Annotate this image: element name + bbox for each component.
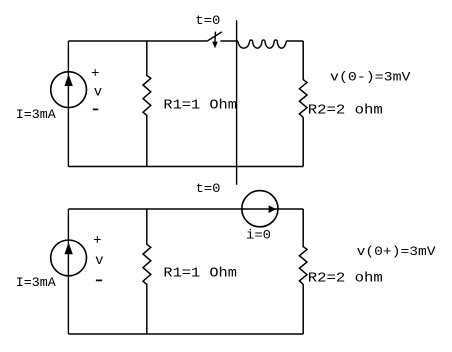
inductor L1 — [238, 40, 286, 48]
svg-text:t=0: t=0 — [195, 13, 220, 28]
current source I1 circle — [51, 72, 87, 108]
wire crossing vertical line (node between circuits) — [236, 20, 238, 185]
current source I3 circle — [51, 240, 87, 276]
wire switch to inductor — [220, 40, 238, 42]
resistor R1 (bottom circuit) — [143, 209, 151, 334]
wire left branch (bottom circuit) — [67, 209, 69, 334]
wire left branch (top circuit) — [67, 41, 69, 167]
svg-text:+: + — [91, 66, 99, 82]
current source I1 arrow — [64, 74, 72, 86]
resistor R2 (top circuit) — [299, 41, 307, 167]
svg-text:R1=1 Ohm: R1=1 Ohm — [163, 98, 237, 113]
svg-text:v(0-)=3mV: v(0-)=3mV — [330, 70, 411, 85]
wire bottom (bottom circuit) — [68, 333, 303, 335]
svg-text:v: v — [95, 253, 103, 269]
svg-text:i=0: i=0 — [246, 227, 271, 242]
svg-text:v(0+)=3mV: v(0+)=3mV — [357, 244, 436, 259]
svg-text:I=3mA: I=3mA — [16, 275, 56, 290]
resistor R1 (top circuit) — [143, 41, 151, 167]
wire top (bottom circuit) — [68, 208, 303, 210]
wire bottom (top circuit) — [68, 166, 303, 168]
label - (bottom) — [96, 279, 102, 281]
switch S1 actuation arrow — [212, 32, 218, 49]
svg-text:+: + — [93, 233, 101, 249]
wire top-left horizontal (top circuit) — [68, 40, 206, 42]
wire inductor to top-right corner — [286, 40, 303, 42]
current source I3 arrow — [64, 242, 72, 254]
label - (top) — [93, 108, 99, 110]
svg-text:R2=2 ohm: R2=2 ohm — [308, 272, 383, 287]
svg-text:t=0: t=0 — [196, 181, 221, 196]
current source I2 arrow — [269, 205, 276, 213]
resistor R2 (bottom circuit) — [299, 209, 307, 334]
svg-text:R2=2 ohm: R2=2 ohm — [308, 104, 383, 119]
svg-text:v: v — [94, 84, 102, 100]
svg-text:R1=1 Ohm: R1=1 Ohm — [163, 266, 237, 281]
current source I2 circle — [242, 191, 278, 227]
switch S1 blade — [207, 32, 222, 42]
svg-text:I=3mA: I=3mA — [16, 107, 56, 122]
